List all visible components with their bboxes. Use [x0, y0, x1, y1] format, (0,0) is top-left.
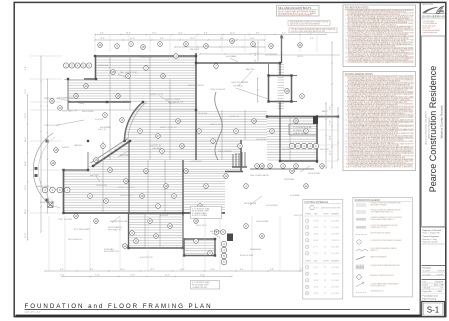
revisions block — [422, 266, 446, 277]
svg-text:Drawn ......... SDG—LSM: Drawn ......... SDG—LSM — [423, 284, 445, 287]
svg-text:1: 1 — [307, 220, 308, 222]
sill and anchor bolts box — [277, 6, 320, 17]
svg-text:6x6 POST W/: 6x6 POST W/ — [150, 145, 161, 147]
plan labels — [36, 49, 330, 259]
svg-text:6'-8": 6'-8" — [60, 269, 64, 271]
svg-text:8'-0": 8'-0" — [330, 106, 332, 110]
svg-text:3 1/8x9 GLB: 3 1/8x9 GLB — [98, 65, 109, 67]
svg-text:Washoe County, Nevada: Washoe County, Nevada — [439, 105, 443, 138]
hatch region D2b lower-left joists — [63, 171, 183, 213]
hatch region C low — [90, 141, 241, 159]
svg-text:2x6 TURNED FLAT: 2x6 TURNED FLAT — [57, 97, 74, 100]
wall y171 — [225, 171, 243, 173]
wall slab block — [289, 124, 317, 135]
svg-text:(3) #4 E.W.: (3) #4 E.W. — [332, 287, 340, 289]
svg-text:FOUNDATION LEGEND: FOUNDATION LEGEND — [355, 199, 380, 202]
svg-text:15'-2": 15'-2" — [152, 33, 157, 35]
svg-text:SLAB EDGE: SLAB EDGE — [250, 248, 261, 251]
note box small 2 — [288, 21, 330, 26]
svg-text:4x10 HDR: 4x10 HDR — [120, 155, 129, 157]
svg-text:HOLD DOWN: HOLD DOWN — [308, 173, 320, 175]
svg-text:DBL. F.J. UNDER: DBL. F.J. UNDER — [166, 99, 181, 101]
dimension texts — [25, 33, 332, 277]
svg-text:2x10 @ 16 O.C.: 2x10 @ 16 O.C. — [140, 57, 153, 59]
svg-text:15'-2": 15'-2" — [25, 185, 27, 190]
svg-text:12'-6": 12'-6" — [25, 89, 27, 94]
svg-text:STEM WALL TYP: STEM WALL TYP — [62, 110, 78, 113]
svg-text:22'-0": 22'-0" — [130, 38, 135, 40]
post solid NE — [313, 116, 318, 124]
svg-text:30"x30": 30"x30" — [314, 234, 320, 236]
svg-text:STAIR: STAIR — [240, 166, 246, 169]
wall long y116 — [267, 116, 338, 118]
svg-text:12'-6": 12'-6" — [180, 269, 185, 271]
svg-text:24'-6": 24'-6" — [25, 209, 27, 214]
svg-text:NO. — DENOTES FOOTING PER: NO. — DENOTES FOOTING PER — [316, 207, 341, 209]
svg-text:12'-6": 12'-6" — [190, 38, 195, 40]
svg-text:STEM WALL: STEM WALL — [284, 178, 295, 181]
wall x183 — [182, 160, 184, 248]
svg-text:Bertram C. King: Bertram C. King — [423, 238, 437, 241]
white pocket — [64, 104, 143, 167]
room NE rect — [269, 76, 298, 102]
svg-text:(3) #4 E.W.: (3) #4 E.W. — [332, 253, 340, 255]
wall top band west — [95, 56, 97, 79]
svg-text:4: 4 — [307, 240, 308, 242]
svg-text:BRETTSTEIN: BRETTSTEIN — [423, 4, 434, 6]
svg-text:10'-4": 10'-4" — [330, 135, 332, 140]
wall step y79 — [64, 78, 96, 81]
sheet name block — [423, 295, 439, 304]
wall E west x128 — [128, 213, 130, 248]
wall bottom long y213 — [64, 212, 226, 214]
svg-text:7'-10": 7'-10" — [255, 59, 257, 64]
wall interior y110 — [68, 109, 196, 111]
hatch region D lower-left joists — [88, 161, 183, 169]
svg-text:DBL JOIST: DBL JOIST — [190, 49, 200, 51]
svg-text:Date .............. 1/15/2007: Date .............. 1/15/2007 — [423, 281, 444, 284]
svg-text:12'-6": 12'-6" — [100, 38, 105, 40]
svg-text:LINE OF DECK: LINE OF DECK — [36, 186, 50, 188]
svg-text:DEPTH: DEPTH — [324, 261, 329, 263]
bottom-left cluster — [104, 226, 134, 251]
svg-text:12" W: 12" W — [314, 247, 319, 249]
svg-text:18"x18": 18"x18" — [314, 221, 320, 223]
svg-text:24"x24": 24"x24" — [314, 227, 320, 229]
svg-text:STAIR OPENING: STAIR OPENING — [218, 150, 233, 153]
svg-text:10'-4": 10'-4" — [25, 161, 27, 166]
svg-text:FOUNDATION and FLOOR FRAMING P: FOUNDATION and FLOOR FRAMING PLAN — [25, 303, 213, 310]
svg-text:12'-6": 12'-6" — [178, 33, 183, 35]
wall step y102 — [68, 101, 131, 103]
svg-text:(3) #4 E.W.: (3) #4 E.W. — [332, 227, 340, 229]
svg-text:CONT. FTG.: CONT. FTG. — [332, 274, 341, 276]
svg-text:SEE NOTES THIS SHEET: SEE NOTES THIS SHEET — [371, 205, 387, 207]
wall G east x215 — [214, 239, 216, 256]
floor framing notes box — [343, 72, 416, 171]
sheet title — [25, 303, 411, 314]
svg-text:6'-8": 6'-8" — [25, 66, 27, 70]
svg-text:8: 8 — [307, 273, 308, 275]
svg-text:7: 7 — [307, 267, 308, 269]
svg-text:(2) #4 E.W.: (2) #4 E.W. — [332, 247, 340, 249]
svg-text:(2) #4 E.W.: (2) #4 E.W. — [332, 221, 340, 223]
svg-text:SYMBOL: SYMBOL — [305, 214, 311, 216]
svg-text:4x6 POST: 4x6 POST — [120, 101, 129, 103]
svg-text:Sean L. Saylor, P.E.: Sean L. Saylor, P.E. — [423, 233, 441, 235]
svg-text:(4) #5 E.W.: (4) #5 E.W. — [332, 267, 340, 269]
title block divider — [419, 2, 421, 316]
hatch region F2 chimney strip — [278, 64, 285, 108]
hatch region C main middle joists — [90, 111, 267, 140]
deck edge circles — [255, 164, 299, 169]
svg-text:4" CONCRETE SLAB: 4" CONCRETE SLAB — [293, 126, 312, 129]
svg-text:CONT. FOOTING: CONT. FOOTING — [58, 219, 73, 221]
svg-text:(2) #4 E.W.: (2) #4 E.W. — [332, 280, 340, 282]
svg-text:6'-8": 6'-8" — [270, 269, 274, 271]
wall riser x280 — [281, 35, 283, 63]
svg-text:5 1/8x12 GLB: 5 1/8x12 GLB — [196, 113, 208, 115]
pair circles bottom — [214, 230, 225, 235]
svg-text:4x12 HDR: 4x12 HDR — [95, 119, 104, 121]
svg-text:15'-2": 15'-2" — [165, 274, 170, 276]
svg-text:2x10 LEDGER: 2x10 LEDGER — [256, 221, 269, 223]
svg-text:8'-0": 8'-0" — [310, 38, 314, 40]
serpentine wall — [215, 92, 223, 160]
svg-text:DBL JOIST: DBL JOIST — [320, 149, 330, 151]
wall west x68 — [67, 79, 69, 110]
svg-text:20"x20": 20"x20" — [314, 280, 320, 282]
svg-text:12'-6": 12'-6" — [60, 274, 65, 276]
svg-text:FOOTING SCHEDULE: FOOTING SCHEDULE — [305, 202, 329, 204]
plan note box 1 — [191, 207, 222, 219]
svg-text:PER SCHEDULE: PER SCHEDULE — [68, 239, 83, 241]
wall G north y239 — [184, 238, 215, 256]
svg-text:CONNECTORS TYP. U.N.O.: CONNECTORS TYP. U.N.O. — [371, 227, 388, 229]
svg-text:VAULTED: VAULTED — [246, 68, 255, 71]
diagonal wall — [91, 139, 131, 167]
svg-text:3: 3 — [307, 233, 308, 235]
svg-text:8'-0": 8'-0" — [204, 33, 208, 35]
wall x241 — [240, 140, 242, 172]
svg-text:18" W: 18" W — [314, 267, 319, 269]
svg-text:SIZE: SIZE — [314, 261, 317, 263]
svg-text:SYMBOL: SYMBOL — [305, 261, 311, 263]
svg-text:7'-10": 7'-10" — [95, 274, 100, 276]
svg-text:12'-6": 12'-6" — [200, 274, 205, 276]
svg-text:22'-0": 22'-0" — [25, 233, 27, 238]
wall west lower x88 — [87, 152, 89, 170]
svg-text:22'-0": 22'-0" — [25, 113, 27, 118]
plan note box 2 — [191, 281, 220, 290]
wall step y170 — [64, 169, 89, 171]
svg-text:22'-0": 22'-0" — [230, 33, 235, 35]
svg-text:15'-2": 15'-2" — [150, 269, 155, 271]
post solid bottom — [227, 234, 233, 242]
wall x196 lower — [195, 110, 197, 160]
wall west x63 — [63, 170, 65, 213]
svg-text:VAULTED CEILING: VAULTED CEILING — [188, 84, 204, 87]
svg-text:6x6 POST: 6x6 POST — [90, 175, 100, 177]
svg-text:SILL AND ANCHOR BOLTS: SILL AND ANCHOR BOLTS — [278, 6, 312, 10]
curved wall — [125, 102, 147, 141]
svg-text:6: 6 — [307, 253, 308, 255]
svg-text:LANDING: LANDING — [74, 144, 83, 147]
svg-text:STEM WALL: STEM WALL — [40, 201, 51, 204]
joist break lines — [103, 56, 290, 248]
wall x280 mid — [279, 101, 281, 161]
svg-text:3'-0": 3'-0" — [100, 33, 104, 35]
date drawn block — [422, 280, 446, 294]
hatch region D2c — [183, 173, 225, 212]
svg-text:8'-0": 8'-0" — [255, 52, 257, 56]
svg-text:32"x32": 32"x32" — [314, 293, 320, 295]
svg-text:SLOPE TO DRAIN: SLOPE TO DRAIN — [192, 214, 208, 217]
wall E bottom y248 — [129, 247, 185, 249]
svg-text:15" W: 15" W — [314, 253, 319, 255]
svg-text:scale: 1/4" = 1'-0": scale: 1/4" = 1'-0" — [25, 312, 41, 314]
svg-text:2x10 @ 16: 2x10 @ 16 — [230, 116, 239, 118]
svg-text:9: 9 — [307, 280, 308, 282]
svg-text:ENGINEERING: ENGINEERING — [422, 15, 445, 19]
hatch region E bottom column joists — [129, 214, 183, 245]
wall top band north — [95, 55, 196, 57]
leader lines — [48, 58, 310, 238]
svg-text:11: 11 — [306, 293, 308, 295]
svg-text:4x6 POST TYP: 4x6 POST TYP — [140, 257, 154, 259]
wall interior x129 — [128, 141, 130, 213]
svg-text:3'-0": 3'-0" — [282, 33, 286, 35]
svg-text:8'-0": 8'-0" — [256, 33, 260, 35]
svg-text:www.be-engr.com: www.be-engr.com — [423, 31, 438, 34]
svg-text:Project No. ......... 0605: Project No. ......... 0605 — [423, 290, 442, 293]
svg-text:26"x26": 26"x26" — [314, 287, 320, 289]
callout circles — [42, 39, 324, 265]
dimension lines — [27, 34, 339, 277]
svg-text:24'-6": 24'-6" — [25, 137, 27, 142]
svg-text:(4) #5 E.W.: (4) #5 E.W. — [332, 234, 340, 236]
svg-text:2x12 LEDGER: 2x12 LEDGER — [190, 161, 202, 163]
svg-text:22'-0": 22'-0" — [330, 150, 332, 155]
svg-text:15'-2": 15'-2" — [250, 38, 255, 40]
svg-text:DEPTH: DEPTH — [324, 214, 329, 216]
svg-text:FLOOR FRAMING NOTES: FLOOR FRAMING NOTES — [345, 73, 373, 76]
svg-text:15'-2": 15'-2" — [280, 38, 285, 40]
svg-text:Assessor's Parcel No. 123-456-: Assessor's Parcel No. 123-456-78 — [424, 111, 427, 145]
svg-text:5/8" DIA. ANCHOR BOLTS @ 48" O: 5/8" DIA. ANCHOR BOLTS @ 48" O.C. 7" EMB… — [278, 12, 317, 15]
svg-text:(4) #5 E.W.: (4) #5 E.W. — [332, 293, 340, 295]
sheet number S-1 — [422, 302, 445, 317]
svg-text:2: 2 — [307, 227, 308, 229]
svg-text:24'-6": 24'-6" — [126, 33, 131, 35]
stair block — [232, 152, 247, 167]
note box small 3 — [289, 28, 337, 33]
svg-text:Floor Framing: Floor Framing — [423, 297, 437, 300]
wall court north y63 — [196, 62, 280, 64]
wall court west x196 — [195, 53, 197, 110]
svg-text:4x8 GIRDER: 4x8 GIRDER — [256, 139, 267, 141]
svg-text:2x10 F.J. @ 16 O.C.: 2x10 F.J. @ 16 O.C. — [118, 187, 136, 189]
svg-text:4x12 BEAM: 4x12 BEAM — [226, 55, 236, 58]
svg-text:8'-0": 8'-0" — [90, 269, 94, 271]
svg-text:10: 10 — [306, 286, 308, 288]
svg-text:10x10: 10x10 — [314, 274, 318, 276]
svg-text:2x10 F.J. @ 16: 2x10 F.J. @ 16 — [150, 94, 163, 96]
svg-text:7'-10": 7'-10" — [130, 274, 135, 276]
engineer of record block — [422, 228, 446, 245]
wall top-right y40 — [265, 54, 340, 56]
svg-text:5: 5 — [307, 246, 308, 248]
hatch region G bottom small block — [184, 240, 215, 253]
svg-text:2x6 DECKING: 2x6 DECKING — [266, 205, 278, 207]
svg-text:2x10 F.J. @ 16 O.C.: 2x10 F.J. @ 16 O.C. — [160, 127, 178, 129]
svg-text:8'-0": 8'-0" — [240, 269, 244, 271]
wall joints — [62, 36, 339, 257]
contact info — [423, 21, 440, 34]
svg-text:FOUNDATION NOTES: FOUNDATION NOTES — [345, 6, 369, 9]
foundation notes box — [343, 5, 416, 67]
svg-text:22'-0": 22'-0" — [120, 269, 125, 271]
svg-text:5 1/8x10 GLB: 5 1/8x10 GLB — [96, 185, 108, 187]
svg-text:36"x36": 36"x36" — [314, 240, 320, 242]
project title box — [422, 36, 446, 227]
svg-text:PATIO: PATIO — [322, 110, 328, 113]
svg-text:2/15/2008 .......... 5/9/2008: 2/15/2008 .......... 5/9/2008 — [423, 274, 444, 276]
svg-text:6x10 BEAM: 6x10 BEAM — [290, 194, 300, 197]
wall court east stub — [268, 63, 270, 76]
wall east x317 — [316, 115, 318, 163]
svg-text:SHEET S-3: SHEET S-3 — [371, 250, 378, 252]
svg-text:SIZE: SIZE — [314, 214, 317, 216]
svg-text:PORCH: PORCH — [62, 147, 69, 149]
svg-text:Engineer Of Record: Engineer Of Record — [423, 229, 442, 232]
hatch region C2 right joists — [267, 118, 317, 160]
svg-text:7'-10": 7'-10" — [330, 120, 332, 125]
svg-text:WALL ABOVE TYP: WALL ABOVE TYP — [168, 101, 184, 104]
svg-text:Foundation and: Foundation and — [423, 295, 439, 298]
porch arc outer — [33, 133, 53, 207]
svg-text:Sean M. Caswell: Sean M. Caswell — [423, 241, 439, 243]
footing schedule box — [303, 200, 343, 300]
porch posts — [35, 140, 49, 202]
svg-text:OPEN TO BELOW: OPEN TO BELOW — [210, 89, 225, 91]
svg-text:2x12 F.J. @ 16: 2x12 F.J. @ 16 — [210, 124, 223, 126]
svg-text:9963 Cristo Rey Court: 9963 Cristo Rey Court — [427, 117, 430, 139]
svg-text:CONC. FOOTING: CONC. FOOTING — [44, 125, 60, 127]
svg-text:PER PLAN TYP: PER PLAN TYP — [108, 228, 122, 231]
svg-text:COMPACTED FILL: COMPACTED FILL — [192, 286, 207, 289]
svg-text:7'-10": 7'-10" — [210, 269, 215, 271]
foundation legend box — [353, 197, 413, 297]
svg-text:S-1: S-1 — [427, 306, 440, 315]
svg-text:Project Engineers: Project Engineers — [423, 235, 439, 238]
svg-text:2x10 @ 16 O.C.: 2x10 @ 16 O.C. — [120, 195, 133, 197]
engineering logo — [421, 4, 446, 19]
svg-text:LINE OF WALL ABOVE: LINE OF WALL ABOVE — [250, 174, 270, 177]
svg-text:2x6 @ 16: 2x6 @ 16 — [98, 129, 106, 131]
svg-text:B.O.F.: B.O.F. — [298, 56, 304, 58]
svg-text:4x10 HDR: 4x10 HDR — [160, 215, 169, 217]
wall court-room link — [279, 63, 281, 76]
svg-text:DBL RIM: DBL RIM — [282, 149, 290, 151]
hatch region B upper-left joists — [68, 80, 196, 109]
svg-text:CONT. FTG.: CONT. FTG. — [332, 240, 341, 242]
svg-text:W8x10 STEEL: W8x10 STEEL — [82, 111, 94, 113]
hatch region D2 lower-middle joists — [183, 161, 241, 171]
svg-text:6'-8": 6'-8" — [160, 38, 164, 40]
svg-text:FTG. PER SCHED: FTG. PER SCHED — [74, 229, 90, 231]
extension lines — [30, 35, 338, 271]
crossed post — [48, 202, 54, 208]
svg-text:Revisions: Revisions — [423, 267, 432, 269]
svg-text:DECK JOIST: DECK JOIST — [196, 225, 207, 227]
svg-text:FOOTING PER FOOTING SCHEDULE T: FOOTING PER FOOTING SCHEDULE THIS SHEET — [371, 240, 402, 242]
porch arc inner — [38, 137, 55, 203]
wall y161 bottom-right — [280, 160, 317, 162]
deck edge y169 — [250, 168, 314, 170]
hatch region A top-middle joists — [95, 57, 196, 78]
svg-text:STEM WALL: STEM WALL — [104, 248, 114, 251]
